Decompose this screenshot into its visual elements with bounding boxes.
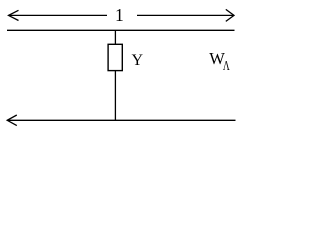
svg-text:Y: Y [132,52,144,69]
svg-text:1: 1 [115,5,124,25]
svg-text:Λ: Λ [223,58,230,73]
